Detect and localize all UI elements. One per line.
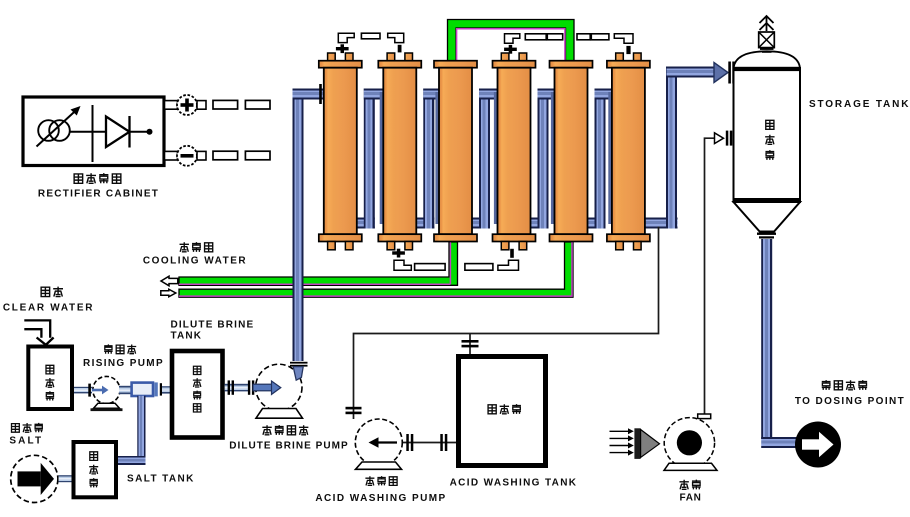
plus sign cell 2 bottom — [392, 251, 405, 254]
label acid washing pump — [315, 476, 446, 504]
label to dosing point — [795, 380, 905, 407]
pipe: clear water tank to rising pump — [74, 387, 92, 394]
label dilute brine tank chars — [193, 366, 202, 412]
busbar hook — [388, 33, 404, 42]
tee coupling — [132, 383, 153, 396]
pipe: tee to dilute brine tank — [162, 386, 171, 393]
busbar hook — [505, 34, 520, 43]
flange at storage tank top inlet — [728, 62, 731, 84]
label cooling water — [143, 242, 247, 266]
cooling water supply line (lower) — [179, 242, 573, 297]
busbar hook — [394, 260, 411, 270]
vent valve on tank top — [759, 32, 775, 53]
flange at dilute brine tank inlet — [154, 382, 157, 396]
flange at cone outlet — [757, 233, 776, 235]
divider line — [92, 105, 94, 162]
pipe elbow into pump — [293, 367, 303, 381]
storage tank dome — [734, 51, 801, 68]
cooling water out arrow — [161, 276, 178, 286]
cooling water top loop pipe — [448, 20, 575, 68]
cooling water in arrow — [161, 289, 176, 297]
minus bar cell 6 — [626, 46, 630, 54]
flange on cell 1 inlet — [319, 84, 322, 104]
flange on acid pump suction line — [346, 407, 362, 410]
busbar dash — [361, 33, 380, 39]
transformer symbol — [37, 106, 81, 147]
busbar dash — [547, 34, 562, 40]
electrolyzer cell 4 — [493, 53, 536, 250]
label salt — [9, 423, 43, 447]
diode symbol — [70, 116, 153, 148]
label clear water — [3, 287, 94, 314]
label rising pump — [83, 344, 164, 369]
flange at tank side inlet — [726, 131, 729, 146]
acid wash line from cell bank outlet down to acid tank — [354, 227, 659, 420]
svg-text:DILUTE BRINE: DILUTE BRINE — [171, 320, 255, 331]
busbar dash — [213, 100, 238, 109]
acid washing tank — [459, 357, 546, 466]
flange pair — [440, 434, 443, 451]
flange pair — [228, 380, 230, 394]
label dilute brine pump — [229, 425, 349, 451]
pipe: serpentine link cell 5 to cell 6 — [585, 218, 606, 229]
flange pair — [248, 380, 250, 394]
dosing point symbol — [795, 422, 841, 468]
storage tank body — [734, 68, 801, 202]
svg-text:FAN: FAN — [679, 493, 701, 504]
acid pump outlet line — [400, 442, 456, 444]
minus bar cell 4 bottom — [510, 249, 514, 258]
storage tank cone — [734, 202, 801, 232]
flange on pump riser — [290, 362, 308, 364]
arrowhead into storage tank — [714, 63, 728, 83]
salt inlet symbol — [11, 455, 58, 502]
electrolyzer cell 3 — [434, 61, 477, 242]
pipe: serpentine link cell 3 to cell 4 — [469, 218, 490, 229]
label salt tank chars — [89, 452, 98, 488]
svg-text:SALT: SALT — [9, 436, 43, 447]
dilute brine tank — [172, 351, 223, 438]
electrolyzer cell 5 — [550, 61, 593, 242]
dilute brine pump — [253, 364, 303, 418]
svg-text:RISING PUMP: RISING PUMP — [83, 358, 164, 369]
label dilute brine tank — [171, 320, 255, 342]
vent arrow — [760, 16, 774, 31]
pipe: brine feed riser from dilute brine pump to cell 1 — [293, 89, 304, 362]
flange on acid tank inlet — [462, 340, 479, 343]
plus sign cell 1 — [336, 47, 349, 50]
busbar hook — [338, 33, 354, 42]
svg-text:CLEAR WATER: CLEAR WATER — [3, 303, 94, 314]
salt tank — [74, 442, 117, 497]
pipe: dilute brine tank to pump — [225, 384, 249, 392]
label storage tank — [765, 99, 910, 160]
pipe: salt inlet to salt tank — [59, 475, 72, 482]
pipe: salt tank riser to tee — [137, 396, 145, 461]
fan — [634, 418, 714, 468]
svg-text:SALT TANK: SALT TANK — [127, 474, 195, 485]
fan outlet stub — [698, 414, 711, 419]
busbar dash — [465, 264, 493, 271]
acid washing pump — [355, 419, 402, 469]
plus terminal — [165, 95, 207, 115]
svg-text:STORAGE TANK: STORAGE TANK — [809, 99, 910, 110]
clear water tank — [28, 347, 72, 410]
svg-text:DILUTE BRINE PUMP: DILUTE BRINE PUMP — [229, 441, 349, 452]
minus terminal — [165, 146, 207, 166]
svg-text:COOLING WATER: COOLING WATER — [143, 256, 247, 267]
plus sign cell 4 — [504, 48, 517, 51]
busbar dash — [213, 151, 238, 160]
fan line arrowhead into tank — [715, 133, 724, 144]
label fan — [679, 480, 701, 504]
cooling water return line (upper) — [179, 242, 458, 285]
acid tank top branch — [469, 334, 471, 355]
fan base — [664, 463, 717, 470]
busbar dash — [525, 34, 546, 40]
minus bar cell 2 — [398, 45, 402, 53]
busbar hook — [498, 260, 519, 270]
pipe: storage tank outlet down — [761, 239, 772, 439]
svg-text:ACID WASHING TANK: ACID WASHING TANK — [450, 478, 578, 489]
fan air line to storage tank — [705, 138, 716, 414]
flange pair — [406, 434, 409, 451]
busbar dash — [577, 34, 590, 40]
svg-text:RECTIFIER CABINET: RECTIFIER CABINET — [38, 189, 159, 200]
electrolyzer cell 2 — [378, 53, 421, 250]
rectifier cabinet box — [23, 97, 164, 166]
label acid washing tank — [450, 404, 578, 488]
pipe: serpentine link cell 2 to cell 3 — [413, 218, 434, 229]
fan inlet air arrows — [610, 428, 634, 455]
rising pump — [91, 376, 123, 411]
pipe: serpentine link cell 4 to cell 5 — [528, 218, 549, 229]
clear water inflow arrow — [24, 320, 53, 344]
pipe: serpentine link cell 1 to cell 2 — [354, 218, 375, 229]
label rectifier cabinet — [38, 173, 159, 199]
svg-text:TANK: TANK — [171, 331, 203, 342]
svg-text:ACID WASHING PUMP: ACID WASHING PUMP — [315, 493, 446, 504]
pipe: rising pump to tee — [119, 386, 133, 394]
svg-text:TO DOSING POINT: TO DOSING POINT — [795, 396, 905, 407]
pipe: cell 6 outlet to storage tank — [642, 218, 678, 229]
electrolyzer cell 6 — [607, 53, 650, 250]
busbar dash — [245, 151, 270, 160]
busbar dash — [591, 34, 609, 40]
label clear water tank — [45, 365, 54, 400]
busbar dash — [245, 100, 270, 109]
busbar dash — [415, 264, 446, 271]
electrolyzer cell 1 — [319, 53, 362, 250]
busbar hook — [614, 34, 633, 43]
